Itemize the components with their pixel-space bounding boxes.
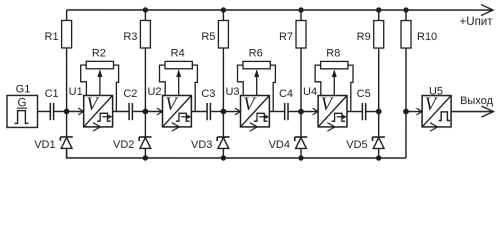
wire U5 input <box>406 111 421 113</box>
svg-text:C4: C4 <box>279 88 293 100</box>
wire U1 input <box>67 110 83 112</box>
svg-text:U4: U4 <box>303 86 317 98</box>
junction on supply rail (col 5) <box>376 7 381 12</box>
wire R8 left lead <box>315 65 321 95</box>
wire R3 bottom lead <box>144 48 146 111</box>
wire VD5 top lead <box>378 112 380 138</box>
shaper block U5 box <box>422 96 451 127</box>
svg-text:VD2: VD2 <box>113 139 134 151</box>
wire R9 top lead <box>378 10 380 21</box>
diode VD5 (zener, cathode up) <box>372 137 384 148</box>
U2 inner pulse symbol <box>176 113 190 121</box>
svg-text:R8: R8 <box>326 47 340 59</box>
wire R4 right lead (feedback to output) <box>192 65 197 111</box>
svg-text:U5: U5 <box>429 86 443 98</box>
wire R10 top lead <box>405 10 407 21</box>
wire R5 bottom lead <box>222 48 224 111</box>
node: junction after C2 <box>142 109 148 115</box>
node: junction after C4 <box>298 109 304 115</box>
node: U5 input / R10 / bus junction <box>403 109 409 115</box>
capacitor C2 right plate <box>131 103 133 120</box>
wire VD3 bottom lead <box>222 148 224 158</box>
wire VD1 top lead <box>66 111 68 136</box>
svg-text:R9: R9 <box>357 31 371 43</box>
U2 width-control arrow <box>181 115 191 119</box>
svg-text:C2: C2 <box>123 88 137 100</box>
junction on supply rail (col 3) <box>221 7 226 12</box>
svg-text:G1: G1 <box>16 83 31 95</box>
junction on bottom bus (VD5) <box>376 155 381 160</box>
R6 wiper arrow to U3 <box>254 69 259 95</box>
diode VD4 (zener, cathode up) <box>295 137 307 148</box>
svg-text:C5: C5 <box>357 88 371 100</box>
node: junction after C1 <box>64 109 70 115</box>
U3 bottom-edge arrowhead <box>250 123 258 131</box>
wire VD1 bottom lead <box>66 148 68 158</box>
capacitor C4 left plate <box>284 103 286 120</box>
U1 width-control arrow <box>102 115 112 119</box>
capacitor C5 left plate <box>361 103 363 120</box>
svg-text:VD3: VD3 <box>191 139 212 151</box>
U5 input arrowhead <box>416 108 422 115</box>
svg-text:VD4: VD4 <box>269 139 290 151</box>
wire U2 input <box>145 110 161 112</box>
U1 bottom-edge arrowhead <box>93 123 101 131</box>
svg-text:R2: R2 <box>92 47 106 59</box>
wire R7 top lead <box>300 10 302 21</box>
diode VD3 (zener, cathode up) <box>217 137 229 148</box>
wire VD4 bottom lead <box>300 148 302 158</box>
U5 diagonal <box>422 96 451 127</box>
U3 input arrowhead <box>235 108 241 115</box>
capacitor C1 right plate <box>53 103 55 120</box>
wire R4 left lead <box>159 65 165 95</box>
svg-text:VD1: VD1 <box>34 139 55 151</box>
svg-text:R5: R5 <box>201 31 215 43</box>
svg-text:C3: C3 <box>201 88 215 100</box>
wire R1 top lead <box>66 10 68 21</box>
capacitor C5 right plate <box>365 103 367 120</box>
capacitor C3 left plate <box>206 103 208 120</box>
wire VD5 bottom lead <box>378 148 380 158</box>
wire U4 output to C5 <box>347 111 362 113</box>
U4 diagonal <box>318 96 347 127</box>
wire U4 input <box>301 111 317 113</box>
junction on bottom bus (VD2) <box>143 155 148 160</box>
U3 width-control arrow <box>259 115 269 119</box>
wire R3 top lead <box>144 10 146 20</box>
svg-text:Выход: Выход <box>460 95 493 107</box>
svg-text:R10: R10 <box>417 31 437 43</box>
wire VD2 top lead <box>144 111 146 137</box>
shaper block U1 box <box>84 95 113 126</box>
wire: bottom diode bus <box>67 149 406 158</box>
capacitor C2 left plate <box>128 103 130 120</box>
U1 diagonal <box>84 95 113 126</box>
generator G1 box <box>7 95 38 127</box>
U4 bottom-edge arrowhead <box>327 123 335 131</box>
svg-text:U3: U3 <box>225 86 239 98</box>
wire R1 bottom lead <box>66 48 68 112</box>
resistor R1 <box>62 20 72 48</box>
G1 pulse symbol <box>14 111 28 124</box>
U2 bottom-edge arrowhead <box>172 123 180 131</box>
capacitor C3 right plate <box>209 103 211 120</box>
wire C2 right lead <box>132 110 145 112</box>
wire VD3 top lead <box>222 111 224 136</box>
svg-text:R7: R7 <box>279 31 293 43</box>
svg-text:R1: R1 <box>45 31 59 43</box>
svg-text:R3: R3 <box>123 31 137 43</box>
U3 diagonal <box>240 95 269 126</box>
U4 inner pulse symbol <box>331 113 345 121</box>
potentiometer R8 body <box>321 61 348 68</box>
wire C4 right lead <box>288 111 301 113</box>
wire R6 right lead (feedback to output) <box>270 65 275 111</box>
resistor R5 <box>218 20 228 48</box>
wire R5 top lead <box>222 10 224 20</box>
diode VD1 (zener, cathode up) <box>60 137 72 148</box>
wire R7 bottom lead <box>300 48 302 111</box>
wire R8 right lead (feedback to output) <box>348 65 353 111</box>
wire C5 right lead <box>366 111 379 113</box>
wire R10 lead down to bus <box>405 48 407 158</box>
wire R2 left lead <box>81 65 87 95</box>
resistor R10 <box>401 21 411 49</box>
wire G1 to C1 <box>37 110 50 112</box>
wire U1 output to C2 <box>113 110 130 112</box>
R2 wiper arrow to U1 <box>97 69 102 95</box>
R8 wiper arrow to U4 <box>332 69 337 95</box>
junction on supply rail (col 2) <box>143 7 148 12</box>
U5 bottom-edge arrowhead <box>430 123 438 131</box>
U5 pulse symbol <box>439 112 451 121</box>
wire U5 output <box>451 111 493 113</box>
junction on supply rail (col 6) <box>403 7 408 12</box>
U2 input arrowhead <box>157 108 163 115</box>
shaper block U4 box <box>318 96 347 127</box>
node: junction after C5 <box>376 109 382 115</box>
junction on bottom bus (VD4) <box>298 155 303 160</box>
svg-text:R4: R4 <box>171 47 185 59</box>
svg-text:U1: U1 <box>69 86 83 98</box>
wire VD2 bottom lead <box>144 148 146 158</box>
resistor R3 <box>140 20 150 48</box>
wire U3 output to C4 <box>269 111 284 113</box>
shaper block U3 box <box>240 95 269 126</box>
wire C1 right lead <box>54 110 67 112</box>
node: junction after C3 <box>220 109 226 115</box>
R4 wiper arrow to U2 <box>176 69 181 95</box>
wire R9 bottom lead <box>378 48 380 111</box>
U4 width-control arrow <box>337 115 347 119</box>
svg-text:C1: C1 <box>45 88 59 100</box>
wire: +U supply rail <box>67 9 493 11</box>
svg-text:VD5: VD5 <box>346 139 367 151</box>
U4 input arrowhead <box>313 108 319 115</box>
capacitor C4 right plate <box>287 103 289 120</box>
potentiometer R2 body <box>86 61 113 68</box>
resistor R9 <box>374 21 384 49</box>
G1 symbol underline <box>17 107 27 109</box>
U1 inner pulse symbol <box>97 113 111 121</box>
U1 input arrowhead <box>78 108 84 115</box>
wire C3 right lead <box>210 110 223 112</box>
svg-text:U2: U2 <box>147 86 161 98</box>
U2 diagonal <box>162 95 191 126</box>
wire R2 right lead (feedback to output) <box>113 65 118 111</box>
svg-text:G: G <box>18 97 27 109</box>
output arrowhead <box>481 106 493 117</box>
wire U3 input <box>223 110 239 112</box>
shaper block U2 box <box>162 95 191 126</box>
junction on bottom bus (VD3) <box>221 155 226 160</box>
svg-text:+Uпит: +Uпит <box>460 16 494 28</box>
potentiometer R4 body <box>165 61 192 68</box>
capacitor C1 left plate <box>49 103 51 120</box>
wire VD4 top lead <box>300 112 302 137</box>
U3 inner pulse symbol <box>254 113 268 121</box>
wire U2 output to C3 <box>191 110 207 112</box>
junction on supply rail (col 4) <box>298 7 303 12</box>
diode VD2 (zener, cathode up) <box>139 137 151 148</box>
svg-text:R6: R6 <box>249 47 263 59</box>
resistor R7 <box>296 21 306 49</box>
wire R6 left lead <box>237 65 243 95</box>
potentiometer R6 body <box>243 61 270 68</box>
supply rail arrowhead <box>481 5 493 16</box>
